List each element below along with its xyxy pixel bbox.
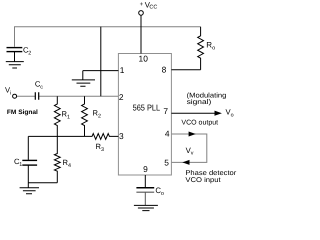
svg-text:4: 4 [165, 129, 170, 139]
svg-text:2: 2 [119, 92, 124, 102]
svg-text:1: 1 [67, 114, 70, 120]
svg-text:VCO output: VCO output [181, 120, 218, 127]
svg-text:565 PLL: 565 PLL [133, 102, 161, 112]
svg-text:10: 10 [139, 54, 149, 64]
svg-text:3: 3 [119, 131, 124, 141]
svg-text:o: o [161, 191, 164, 197]
svg-text:i: i [10, 90, 11, 96]
svg-text:+: + [140, 1, 144, 8]
svg-text:7: 7 [163, 106, 168, 116]
svg-text:signal): signal) [187, 99, 212, 106]
svg-text:o: o [212, 45, 215, 51]
svg-text:5: 5 [164, 157, 169, 167]
svg-text:9: 9 [143, 164, 148, 174]
svg-text:v: v [191, 151, 194, 157]
svg-text:8: 8 [162, 64, 167, 74]
svg-text:4: 4 [68, 163, 71, 169]
svg-text:o: o [231, 112, 234, 118]
svg-text:VCO input: VCO input [185, 177, 220, 184]
svg-text:2: 2 [98, 113, 101, 119]
svg-text:c: c [40, 84, 43, 90]
svg-text:CC: CC [149, 5, 157, 11]
svg-text:1: 1 [120, 65, 125, 75]
svg-text:2: 2 [28, 50, 31, 56]
svg-text:3: 3 [101, 147, 104, 153]
svg-text:FM Signal: FM Signal [7, 109, 38, 116]
svg-text:1: 1 [19, 162, 22, 168]
